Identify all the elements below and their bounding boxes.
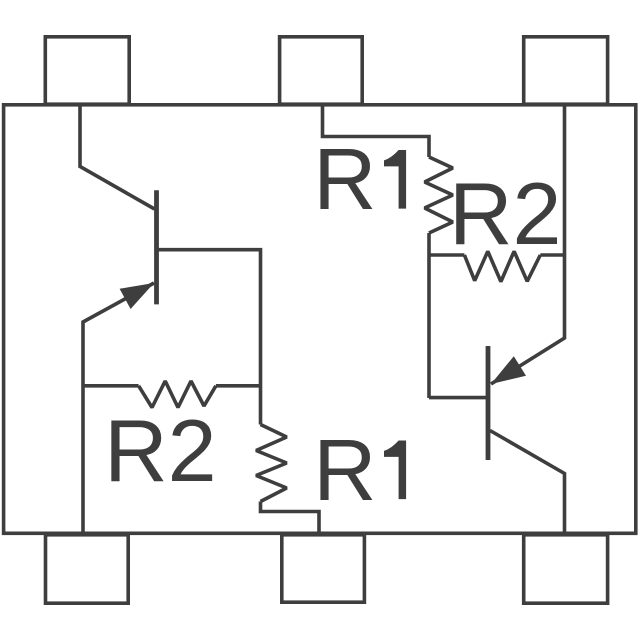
wire R2 left lead — [83, 384, 139, 388]
resistor R1 (left zigzag) — [256, 425, 287, 502]
resistor R2 (left zigzag) — [139, 381, 216, 408]
wire R2 right lead — [216, 384, 261, 388]
transistor Q1 base bar — [154, 190, 159, 304]
wire Q2 emitter from top-right pad — [491, 105, 565, 384]
label R1 (bottom) — [313, 421, 406, 519]
package body — [4, 105, 636, 534]
label R1 (top) — [313, 130, 406, 228]
svg-text:R: R — [313, 421, 376, 519]
wire Q1 emitter to bottom-left pad — [83, 283, 154, 533]
wire Q1 collector from top-left pad — [80, 105, 155, 209]
wire from top-middle pad to R1 (right) — [323, 105, 430, 157]
wire R2 right left lead — [429, 253, 464, 257]
wire R1 bottom to base node — [427, 233, 431, 255]
transistor Q2 base bar — [486, 346, 491, 460]
Q1 emitter arrow — [120, 283, 154, 309]
svg-text:R: R — [313, 130, 376, 228]
wire R1 to bottom-middle pad — [261, 502, 320, 534]
wire Q2 collector to bottom-right pad — [490, 431, 565, 534]
pin pad top-right — [524, 37, 608, 104]
wire R2 right right lead — [540, 253, 564, 257]
resistor R1 (right zigzag) — [425, 157, 453, 233]
wire Q1 base — [157, 250, 261, 425]
pin pad top-middle — [280, 37, 363, 104]
resistor R2 (right zigzag) — [464, 251, 540, 281]
pin pad bottom-middle — [282, 535, 365, 602]
pin pad top-left — [45, 37, 129, 104]
pin pad bottom-left — [46, 535, 129, 603]
svg-text:R2: R2 — [449, 164, 562, 263]
wire base node down — [427, 255, 431, 398]
Q2 emitter arrow — [491, 356, 526, 384]
wire Q2 base — [429, 396, 486, 400]
pin pad bottom-right — [524, 535, 608, 603]
svg-text:R2: R2 — [104, 401, 217, 500]
